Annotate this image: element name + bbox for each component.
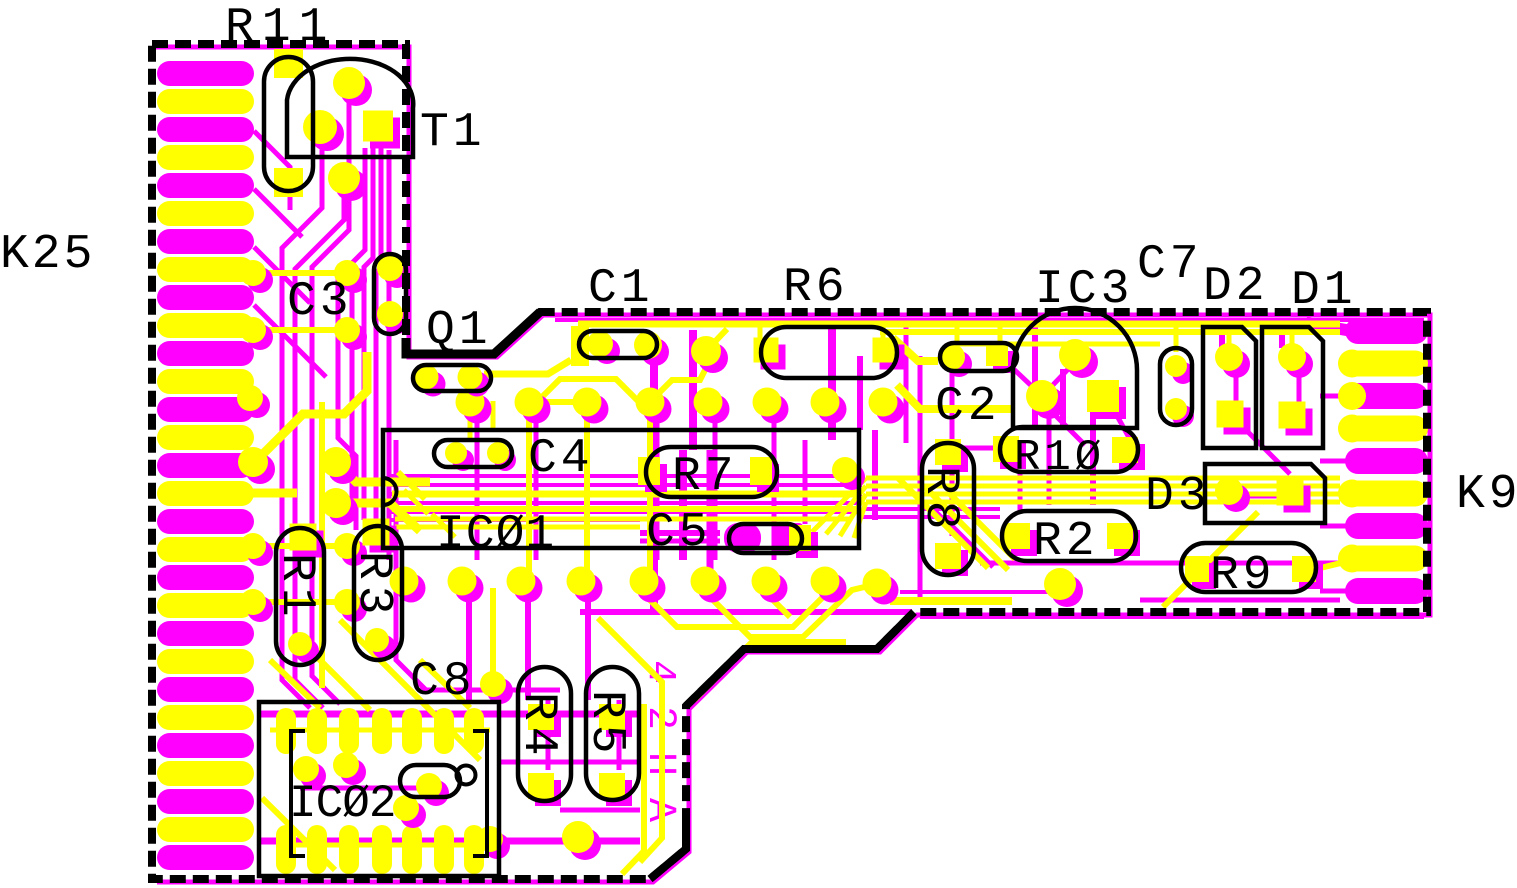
svg-text:D3: D3 [1145,470,1211,524]
svg-text:R7: R7 [672,450,738,504]
svg-text:C5: C5 [646,506,712,560]
svg-text:R4: R4 [511,692,565,762]
svg-text:R5: R5 [579,690,633,760]
svg-text:C2: C2 [935,380,1001,434]
svg-text:R3: R3 [346,551,400,621]
svg-text:R6: R6 [783,261,849,315]
svg-text:R11: R11 [225,1,335,55]
svg-text:R1Ø: R1Ø [1014,433,1105,483]
svg-text:R8: R8 [913,466,967,536]
svg-text:R1: R1 [269,553,323,623]
svg-text:C8: C8 [410,655,476,709]
svg-text:T1: T1 [420,106,486,160]
svg-text:K25: K25 [0,228,95,282]
svg-text:D2: D2 [1203,260,1269,314]
svg-text:C4: C4 [528,432,594,486]
svg-text:C1: C1 [588,262,654,316]
svg-text:R2: R2 [1033,515,1099,569]
svg-text:C7: C7 [1137,238,1203,292]
svg-text:D1: D1 [1291,264,1357,318]
svg-text:Q1: Q1 [426,304,492,358]
svg-text:IC3: IC3 [1035,263,1133,317]
svg-text:R9: R9 [1210,549,1276,603]
svg-text:K9: K9 [1456,468,1517,522]
svg-text:C3: C3 [287,275,353,329]
svg-text:ICØ2: ICØ2 [289,778,395,830]
svg-text:ICØ1: ICØ1 [436,508,555,562]
